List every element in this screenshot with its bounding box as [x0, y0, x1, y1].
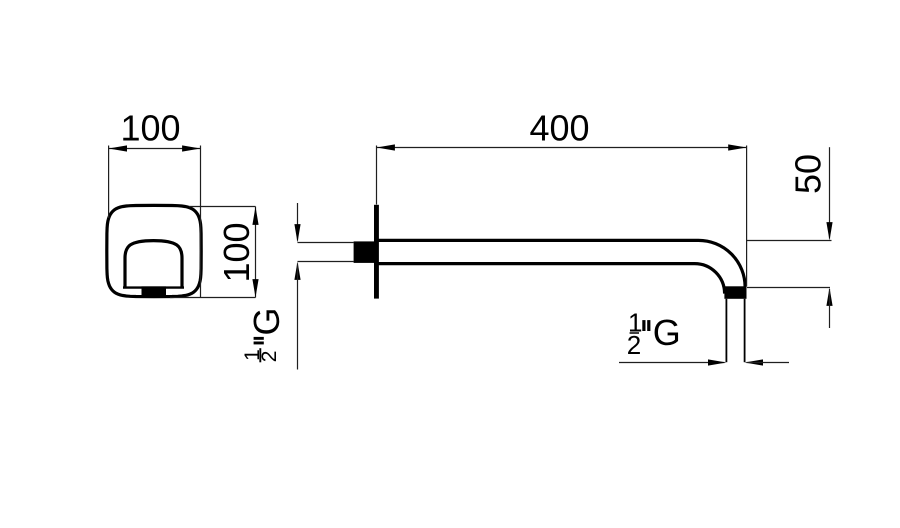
reference line top (tube top extended)	[747, 240, 832, 242]
double prime tick 2 rotated	[254, 342, 264, 345]
thread nut (black square at wall)	[354, 241, 376, 263]
extension line left	[108, 146, 110, 219]
double prime tick 1	[642, 320, 645, 331]
arrow left	[377, 144, 395, 150]
arrow left	[109, 145, 127, 151]
extension line left	[376, 146, 378, 205]
dimension line	[377, 147, 747, 149]
dimension line	[109, 148, 201, 150]
svg-text:100: 100	[216, 222, 257, 282]
arch bottom line	[123, 286, 184, 288]
dimension line	[255, 207, 257, 298]
arm tube bottom edge with inner elbow curve	[379, 264, 725, 294]
arrow up to tube bottom	[294, 262, 300, 280]
reference line bottom	[170, 297, 256, 299]
svg-text:100: 100	[120, 107, 180, 148]
right line	[747, 362, 790, 364]
elbow end black square	[724, 286, 746, 299]
arrow down	[252, 279, 258, 297]
spout arch inside flange	[125, 241, 182, 288]
reference line top	[189, 206, 256, 208]
upper arrow line	[829, 147, 831, 238]
arrow up	[252, 207, 258, 225]
lower arrow line	[829, 289, 831, 328]
fraction bar	[630, 332, 639, 334]
flange outline (soft square)	[107, 205, 201, 296]
left line	[619, 362, 725, 364]
arm tube top edge with outer elbow curve	[379, 240, 746, 287]
arrow left-pointing	[745, 359, 763, 365]
outlet nipple right edge	[744, 299, 746, 362]
extension line right	[200, 146, 202, 298]
arrow down to tube top	[294, 224, 300, 242]
svg-text:50: 50	[788, 154, 829, 194]
svg-text:2: 2	[627, 330, 641, 360]
tube top edge extended	[298, 242, 354, 244]
outlet nipple left edge	[725, 299, 727, 362]
reference line bottom (outlet level extended)	[747, 287, 830, 289]
svg-text:400: 400	[529, 107, 589, 148]
extension line right	[746, 146, 748, 287]
double prime tick 2	[647, 320, 650, 331]
aerator black rectangle	[142, 286, 167, 296]
arrow right	[182, 145, 200, 151]
arrow right	[728, 144, 746, 150]
svg-text:2: 2	[258, 351, 281, 363]
double prime tick 1 rotated	[254, 337, 264, 340]
arrow down	[826, 222, 832, 240]
arrow up	[826, 288, 832, 306]
wall plate bar	[374, 205, 379, 299]
arrow right-pointing	[708, 359, 726, 365]
svg-text:G: G	[653, 312, 681, 353]
upper arrow line	[297, 203, 299, 241]
lower arrow line	[297, 264, 299, 370]
fraction bar rotated	[259, 348, 261, 362]
tube bottom edge extended	[298, 261, 354, 263]
svg-text:G: G	[246, 307, 287, 335]
